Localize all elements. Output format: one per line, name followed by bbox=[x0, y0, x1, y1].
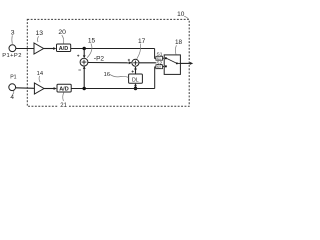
svg-text:4: 4 bbox=[10, 94, 14, 101]
amp 14 bbox=[34, 83, 44, 94]
svg-text:20: 20 bbox=[58, 29, 66, 36]
plus sign at adder15 top input bbox=[77, 55, 79, 57]
svg-text:15: 15 bbox=[88, 38, 96, 45]
amp 13 bbox=[34, 43, 44, 54]
leader for 18 bbox=[175, 45, 176, 54]
terminal 3 bbox=[9, 45, 16, 52]
switch arm bbox=[167, 58, 177, 63]
leader for 13 bbox=[38, 36, 39, 42]
A/D converter 21 bbox=[57, 84, 71, 92]
svg-text:21: 21 bbox=[60, 103, 67, 109]
wire DL to adder17 with arrow bbox=[135, 67, 137, 74]
wire junction down to adder 15 bbox=[83, 49, 85, 58]
wire bottom line up into DL with arrow bbox=[135, 84, 137, 89]
svg-text:P1+P2: P1+P2 bbox=[2, 53, 22, 59]
leader for 20 bbox=[62, 35, 64, 44]
svg-text:3: 3 bbox=[11, 29, 15, 36]
svg-text:16: 16 bbox=[104, 72, 110, 78]
label P2 with leader tick bbox=[94, 57, 96, 59]
adder 17 bbox=[132, 59, 139, 66]
S2 input box bbox=[156, 65, 163, 69]
junction node top bbox=[83, 47, 86, 50]
connector S2 box to switch contact bbox=[163, 66, 165, 68]
svg-text:10: 10 bbox=[177, 11, 185, 18]
wire adder15 to adder17 with arrow bbox=[88, 62, 130, 64]
leader for 21 bbox=[63, 93, 64, 101]
feedback wire up to S2 input bbox=[155, 67, 156, 89]
wire amp14 to A/D 21 with arrow bbox=[44, 88, 54, 90]
wire amp13 to A/D 20 with arrow bbox=[44, 48, 54, 50]
bottom wire A/D21 to feedback corner bbox=[71, 88, 155, 90]
svg-text:17: 17 bbox=[138, 38, 146, 45]
output wire with arrow bbox=[180, 62, 190, 64]
leader for 14 bbox=[39, 76, 40, 82]
leader for 15 bbox=[87, 44, 92, 58]
plus sign at adder17 left input bbox=[128, 59, 130, 61]
wire terminal4 to amp14 bbox=[16, 87, 35, 90]
wire adder17 output to S-box area bbox=[139, 62, 156, 64]
leader for 4 bbox=[13, 91, 14, 95]
plus sign at adder17 bottom input bbox=[132, 70, 134, 72]
svg-text:14: 14 bbox=[37, 71, 44, 77]
minus sign at adder15 bottom input bbox=[78, 69, 81, 71]
contact square S2 bbox=[165, 65, 167, 67]
leader for 10 bbox=[184, 16, 189, 19]
svg-text:P2: P2 bbox=[96, 56, 104, 63]
contact square S1 bbox=[165, 57, 167, 59]
svg-text:P1: P1 bbox=[10, 75, 16, 81]
wire top corner down to S1 box bbox=[155, 49, 156, 59]
junction node bottom bbox=[83, 87, 86, 90]
switch block 18 bbox=[164, 55, 180, 75]
svg-text:S2: S2 bbox=[157, 65, 161, 69]
white gap in dashed border behind label 21 bbox=[59, 101, 70, 108]
S1 input box bbox=[156, 56, 163, 60]
svg-text:A/D: A/D bbox=[59, 86, 68, 92]
dashed box 10 bbox=[27, 19, 189, 106]
leader for 17 bbox=[137, 44, 141, 59]
wire A/D20 to corner bbox=[71, 48, 155, 50]
A/D converter 20 bbox=[57, 44, 71, 52]
svg-text:DL: DL bbox=[132, 77, 139, 83]
svg-text:A/D: A/D bbox=[59, 46, 68, 52]
delay block DL 16 bbox=[129, 74, 143, 83]
connector S1 box to switch contact bbox=[163, 57, 165, 59]
wire terminal3 to amp13 bbox=[16, 48, 34, 50]
leader for 3 bbox=[11, 35, 13, 44]
svg-text:S1: S1 bbox=[157, 57, 161, 61]
svg-text:13: 13 bbox=[36, 30, 44, 37]
leader for 16 bbox=[110, 74, 129, 77]
junction node under DL bbox=[134, 87, 137, 90]
terminal 4 bbox=[9, 84, 16, 91]
adder 15 bbox=[80, 58, 88, 66]
wire from bottom junction up into adder 15 bbox=[83, 66, 85, 88]
